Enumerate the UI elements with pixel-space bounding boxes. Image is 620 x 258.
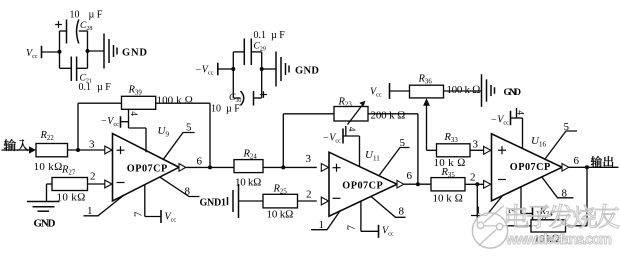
wire xyxy=(88,50,105,52)
input arrow pin3 xyxy=(484,146,491,154)
wire with arrowhead xyxy=(2,146,37,153)
wire xyxy=(283,114,334,168)
input arrow pin2 xyxy=(105,180,112,188)
output arrow pin 6 xyxy=(397,170,413,188)
watermark elecfans logo and text xyxy=(472,204,619,248)
pin 5 xyxy=(380,137,410,175)
svg-text:0.1: 0.1 xyxy=(79,82,92,93)
svg-text:4: 4 xyxy=(128,111,138,116)
capacitor C30 10uF xyxy=(211,91,267,115)
junction xyxy=(475,182,479,186)
ground GND1 xyxy=(200,184,239,218)
pin 4 -Vcc xyxy=(491,108,525,148)
resistor R33 xyxy=(434,132,471,169)
wire xyxy=(569,166,619,168)
pin 4 -Vcc xyxy=(323,126,360,167)
wire xyxy=(404,183,431,185)
pin 1 xyxy=(471,195,503,217)
pin 5 xyxy=(163,122,195,160)
svg-text:µ F: µ F xyxy=(271,30,285,41)
capacitor C28 10uF xyxy=(55,10,103,44)
wire xyxy=(444,90,482,92)
pin 3 label xyxy=(89,139,95,151)
output arrow pin 6 xyxy=(562,155,580,171)
op-amp U16 OP07CP xyxy=(492,134,563,201)
svg-text:8: 8 xyxy=(562,188,568,200)
svg-text:OP07CP: OP07CP xyxy=(342,181,383,192)
pin 3 label xyxy=(306,153,312,165)
wire xyxy=(156,103,210,167)
wire xyxy=(60,30,88,32)
wire xyxy=(427,149,437,151)
capacitor C29 0.1uF xyxy=(244,30,285,65)
pin 7 to Vcc xyxy=(507,187,548,223)
-Vcc port xyxy=(195,63,218,77)
junction xyxy=(416,182,420,186)
wire xyxy=(298,200,317,202)
pin 3 label xyxy=(473,139,479,151)
svg-text:100 k Ω: 100 k Ω xyxy=(157,95,194,107)
junction xyxy=(86,49,90,53)
svg-text:1: 1 xyxy=(87,205,93,217)
wire xyxy=(233,51,261,53)
svg-text:GND1: GND1 xyxy=(200,198,227,209)
output arrow pin 6 xyxy=(179,156,203,172)
wire xyxy=(47,183,53,185)
svg-text:µ F: µ F xyxy=(97,82,111,93)
wire xyxy=(470,149,485,151)
wire xyxy=(368,114,418,184)
wire xyxy=(233,97,261,99)
svg-text:10: 10 xyxy=(70,10,80,21)
svg-text:4: 4 xyxy=(514,110,524,115)
wire xyxy=(78,103,122,150)
svg-text:5: 5 xyxy=(400,137,406,149)
wire xyxy=(477,184,531,226)
svg-text:6: 6 xyxy=(197,156,203,168)
ground GND xyxy=(276,52,319,87)
svg-text:10 k Ω: 10 k Ω xyxy=(433,193,463,205)
svg-text:10 k Ω: 10 k Ω xyxy=(434,157,466,169)
svg-text:200 k Ω: 200 k Ω xyxy=(371,110,406,122)
resistor R24 xyxy=(234,149,263,189)
svg-text:OP07CP: OP07CP xyxy=(127,164,168,175)
designator U11 xyxy=(365,149,380,162)
svg-text:2: 2 xyxy=(470,172,476,184)
resistor R34 xyxy=(531,206,566,245)
junction xyxy=(231,67,235,71)
node A xyxy=(76,148,80,152)
pin 2 label xyxy=(306,189,312,201)
junction xyxy=(585,165,589,169)
svg-text:1: 1 xyxy=(476,205,482,217)
input arrow pin3 xyxy=(105,146,112,154)
wire xyxy=(566,167,588,226)
input arrow pin2 xyxy=(321,197,328,205)
pin 1 xyxy=(311,210,341,231)
capacitor C21 0.1uF xyxy=(71,57,111,94)
svg-text:10 kΩ: 10 kΩ xyxy=(235,177,262,189)
svg-text:100 k Ω: 100 k Ω xyxy=(447,84,481,96)
svg-text:10 kΩ: 10 kΩ xyxy=(34,161,63,173)
svg-text:GND: GND xyxy=(504,88,522,98)
svg-text:8: 8 xyxy=(399,206,405,218)
wire xyxy=(263,166,317,168)
op-amp U11 OP07CP xyxy=(329,152,397,216)
wire xyxy=(88,183,106,185)
ground xyxy=(27,184,60,230)
pin 8 xyxy=(542,177,574,200)
svg-text:GND: GND xyxy=(34,218,56,230)
pin 7 to Vcc xyxy=(345,201,394,238)
wire xyxy=(68,149,106,151)
wire xyxy=(59,31,61,68)
svg-text:OP07CP: OP07CP xyxy=(510,162,551,173)
wire xyxy=(87,31,89,68)
junction xyxy=(260,67,264,71)
pin 2 label xyxy=(470,172,476,184)
ground GND xyxy=(482,74,522,107)
pin 2 label xyxy=(90,171,96,183)
junction xyxy=(208,165,212,169)
wire xyxy=(390,90,410,92)
pin 1 xyxy=(84,195,125,217)
svg-text:3: 3 xyxy=(89,139,95,151)
potentiometer R36 100k xyxy=(410,74,481,98)
resistor R27 xyxy=(52,165,88,204)
resistor R39 xyxy=(122,85,194,110)
svg-text:10 kΩ: 10 kΩ xyxy=(267,209,294,221)
wire xyxy=(261,52,263,98)
svg-text:5: 5 xyxy=(564,121,570,133)
svg-text:2: 2 xyxy=(90,171,96,183)
resistor R22 xyxy=(34,130,68,173)
input label xyxy=(4,139,29,151)
wire xyxy=(42,51,60,53)
input arrow pin2 xyxy=(484,180,491,188)
svg-text:10: 10 xyxy=(211,104,221,115)
svg-text:4: 4 xyxy=(346,127,356,132)
svg-text:5: 5 xyxy=(186,122,192,134)
designator U16 xyxy=(531,135,546,148)
pin 7 to Vcc xyxy=(132,185,176,224)
wire xyxy=(218,68,234,70)
potentiometer R23 200k xyxy=(334,97,406,125)
output label xyxy=(591,156,614,167)
op-amp U9 OP07CP xyxy=(113,134,180,202)
svg-text:GND: GND xyxy=(295,66,319,77)
pin 8 to GND1 xyxy=(160,177,200,197)
svg-text:2: 2 xyxy=(306,189,312,201)
svg-text:7: 7 xyxy=(132,211,144,217)
svg-text:3: 3 xyxy=(473,139,479,151)
svg-text:6: 6 xyxy=(407,170,413,182)
resistor R25 xyxy=(263,184,298,221)
svg-text:µ F: µ F xyxy=(226,104,240,115)
wire xyxy=(262,68,276,70)
input arrow pin3 xyxy=(321,164,328,172)
ground GND xyxy=(104,34,147,69)
svg-text:1: 1 xyxy=(319,219,325,231)
wire xyxy=(186,166,234,168)
pin 5 xyxy=(545,121,577,159)
svg-text:6: 6 xyxy=(574,155,580,167)
pin 4 -Vcc xyxy=(101,109,147,152)
wiper arrow of R36 xyxy=(423,98,430,150)
svg-text:GND: GND xyxy=(122,48,147,59)
svg-text:www.elecfans.com: www.elecfans.com xyxy=(505,232,612,248)
wire xyxy=(465,183,485,185)
svg-text:7: 7 xyxy=(345,224,357,230)
svg-text:8: 8 xyxy=(185,186,191,198)
Vcc port xyxy=(370,83,390,99)
junction xyxy=(58,50,62,54)
svg-text:3: 3 xyxy=(306,153,312,165)
Vcc port xyxy=(26,46,42,60)
wire xyxy=(232,52,234,98)
resistor R35 xyxy=(431,167,465,205)
junction xyxy=(281,165,285,169)
svg-text:10 kΩ: 10 kΩ xyxy=(57,192,86,204)
wire xyxy=(239,200,264,202)
svg-text:0.1: 0.1 xyxy=(254,30,267,41)
svg-text:µ F: µ F xyxy=(89,10,103,21)
pin 8 xyxy=(371,196,406,218)
designator U9 xyxy=(158,125,170,138)
wire xyxy=(60,67,88,69)
